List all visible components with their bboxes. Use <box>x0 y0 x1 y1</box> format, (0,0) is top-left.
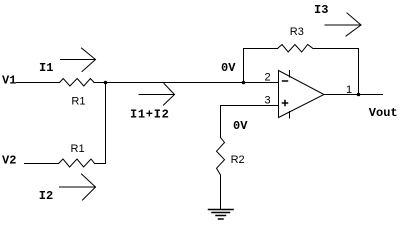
resistor R3 <box>278 45 314 53</box>
wire feedback vertical down to output <box>358 49 360 95</box>
wire V2 lead <box>25 163 59 165</box>
resistor R1 (V1 branch) <box>60 79 95 87</box>
resistor R1 (V2 branch) <box>59 159 95 167</box>
svg-text:R1: R1 <box>71 143 85 155</box>
current arrow I3 <box>325 13 361 36</box>
svg-text:R3: R3 <box>290 26 304 38</box>
node feedback junction dot on pin2 wire <box>242 81 246 85</box>
svg-text:I2: I2 <box>39 189 53 203</box>
node A junction dot <box>104 81 108 85</box>
svg-text:I1: I1 <box>39 61 53 75</box>
svg-text:2: 2 <box>265 72 271 84</box>
wire R1 (V2 branch) to corner <box>95 163 106 165</box>
svg-text:0V: 0V <box>221 61 236 75</box>
svg-text:3: 3 <box>265 95 271 107</box>
wire feedback vertical from node at pin2 wire up <box>243 49 245 83</box>
svg-text:R2: R2 <box>231 154 245 166</box>
resistor R2 <box>217 138 225 176</box>
svg-text:V1: V1 <box>2 74 16 88</box>
wire feedback top left segment <box>244 48 278 50</box>
current arrow I2 <box>60 174 96 200</box>
svg-text:R1: R1 <box>71 95 85 107</box>
op-amp V+ power pin tick <box>289 71 291 78</box>
op-amp inverting input minus sign <box>283 80 288 82</box>
wire R2 branch vertical lower <box>220 175 222 209</box>
wire pin 3 horizontal <box>221 105 279 107</box>
svg-text:I1+I2: I1+I2 <box>130 108 170 122</box>
wire feedback top right segment <box>313 48 359 50</box>
wire vertical node A down to V2 branch <box>105 83 107 164</box>
svg-text:I3: I3 <box>314 3 328 17</box>
node output junction dot <box>357 93 361 97</box>
svg-text:1: 1 <box>346 84 352 96</box>
ground symbol <box>209 210 234 220</box>
wire main node A to op-amp pin 2 <box>94 82 278 84</box>
op-amp non-inverting input plus sign <box>283 101 288 106</box>
op-amp U1 triangle <box>279 71 325 118</box>
wire op-amp output <box>324 94 383 96</box>
svg-text:V2: V2 <box>2 154 16 168</box>
svg-text:Vout: Vout <box>369 106 398 120</box>
wire V1 lead <box>17 82 60 84</box>
op-amp V- power pin tick <box>289 112 291 119</box>
svg-text:0V: 0V <box>233 119 248 133</box>
current arrow I1 <box>61 48 96 72</box>
current arrow I1+I2 <box>139 84 175 106</box>
wire R2 branch vertical upper <box>220 106 222 138</box>
